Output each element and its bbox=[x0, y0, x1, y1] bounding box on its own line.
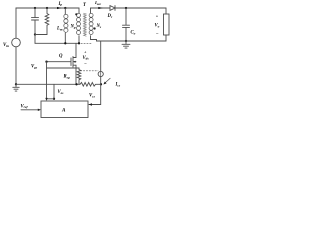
resistor Rsg bbox=[77, 68, 81, 84]
load resistor box bbox=[164, 14, 170, 35]
wire secondary bottom jog bbox=[91, 40, 97, 42]
wire sense vertical bottom bbox=[100, 77, 102, 85]
svg-text:Vcs: Vcs bbox=[89, 94, 96, 99]
capacitor Co bbox=[123, 8, 130, 41]
ground secondary bbox=[122, 41, 130, 48]
node Lm top bbox=[64, 7, 66, 9]
arrow Vcs into controller bbox=[89, 103, 93, 105]
svg-text:−: − bbox=[156, 32, 159, 37]
svg-text:Ns: Ns bbox=[96, 24, 102, 29]
svg-text:Vref: Vref bbox=[21, 104, 29, 109]
svg-text:Lm: Lm bbox=[56, 27, 63, 32]
svg-text:Ip: Ip bbox=[58, 2, 63, 7]
transformer polarity dot primary bbox=[75, 13, 77, 15]
wire left rail top bbox=[15, 8, 17, 38]
dashed sense line bottom bbox=[81, 70, 99, 72]
dependent source arrow bbox=[100, 72, 102, 75]
svg-text:Vin: Vin bbox=[3, 43, 9, 48]
svg-text:Co: Co bbox=[131, 31, 136, 36]
node gate bbox=[45, 61, 47, 63]
wire Vcs to controller bbox=[89, 84, 101, 104]
current arrow Isec bbox=[98, 7, 103, 9]
svg-text:Q: Q bbox=[59, 54, 63, 59]
svg-text:Ics: Ics bbox=[115, 83, 121, 88]
node secondary ground junction bbox=[125, 40, 127, 42]
transformer polarity dot secondary bbox=[94, 27, 96, 29]
node source ground bbox=[75, 83, 77, 85]
wire C1 to R1 bottom bbox=[35, 34, 47, 36]
transformer secondary winding Ns bbox=[90, 8, 92, 40]
wire source bbox=[75, 65, 77, 84]
current arrow Ip bbox=[57, 7, 62, 9]
transformer T primary winding Np bbox=[78, 8, 80, 43]
node top R1 bbox=[46, 7, 48, 9]
wire gate node down to controller bbox=[46, 62, 48, 99]
svg-text:Isec: Isec bbox=[94, 1, 102, 6]
inductor Lm bbox=[64, 8, 66, 43]
wire drain bbox=[75, 43, 77, 57]
wire clamp down to primary rail bbox=[34, 35, 36, 44]
node C1 bottom bbox=[34, 33, 36, 35]
dashed sense line top bbox=[81, 42, 91, 44]
wire secondary top bbox=[91, 7, 167, 9]
svg-text:Vgs: Vgs bbox=[31, 65, 38, 70]
svg-text:+: + bbox=[84, 49, 87, 54]
node diode out bbox=[125, 7, 127, 9]
svg-text:+: + bbox=[156, 13, 159, 18]
wire left rail bottom bbox=[15, 47, 17, 85]
svg-text:−: − bbox=[84, 62, 87, 67]
wire bottom rail bbox=[16, 83, 80, 85]
wire secondary bottom rail bbox=[97, 40, 167, 42]
node Lm bottom bbox=[64, 42, 66, 44]
node CS junction bbox=[100, 83, 102, 85]
node Ves bbox=[53, 98, 55, 100]
current arrow Ics bbox=[105, 78, 111, 83]
capacitor C1 clamp bbox=[32, 8, 39, 35]
svg-text:Np: Np bbox=[70, 25, 76, 30]
node top C1 bbox=[34, 7, 36, 9]
dependent source circle bbox=[98, 71, 103, 76]
svg-text:T: T bbox=[83, 3, 87, 8]
wire Vref bbox=[21, 109, 39, 111]
arrow Vref into controller bbox=[38, 109, 41, 111]
wire Ves from rail bbox=[53, 84, 55, 99]
wire load right top bbox=[165, 8, 167, 14]
node ground junction bbox=[15, 83, 17, 85]
arrow into controller top bbox=[45, 98, 47, 101]
wire gate node to Rsg top bbox=[47, 67, 80, 69]
diode Dr bbox=[110, 6, 115, 11]
voltage source Vin bbox=[12, 38, 21, 47]
svg-text:Rsg: Rsg bbox=[64, 75, 70, 80]
svg-text:A: A bbox=[61, 108, 66, 114]
wire Ves horizontal bbox=[47, 98, 55, 100]
wire sense vertical top bbox=[100, 41, 102, 71]
resistor R1 clamp bbox=[45, 8, 49, 35]
node primary rail drain junction bbox=[78, 42, 80, 44]
controller block A bbox=[41, 101, 88, 118]
svg-text:Ves: Ves bbox=[58, 90, 65, 95]
transistor Q body arrow bbox=[73, 61, 75, 63]
wire top rail primary bbox=[16, 7, 79, 9]
transistor Q mosfet bbox=[47, 57, 77, 68]
wire primary bottom rail bbox=[35, 42, 79, 44]
svg-text:Vds: Vds bbox=[83, 56, 90, 61]
svg-text:Dr: Dr bbox=[107, 14, 113, 19]
wire load right bottom bbox=[165, 35, 167, 41]
svg-text:Vo: Vo bbox=[155, 24, 160, 29]
resistor Rcs bbox=[80, 83, 101, 87]
ground primary bbox=[13, 84, 19, 91]
transformer core bbox=[84, 13, 87, 36]
